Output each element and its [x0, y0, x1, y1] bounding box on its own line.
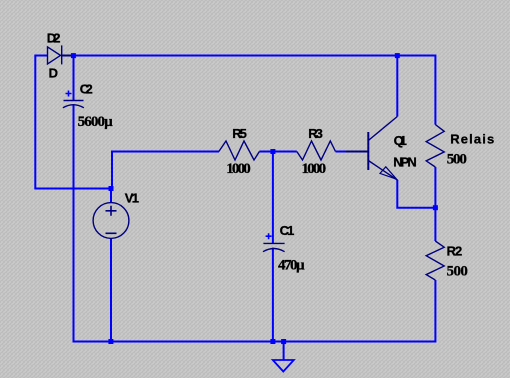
svg-text:D2: D2	[47, 31, 61, 46]
svg-text:R3: R3	[308, 126, 323, 141]
svg-text:C2: C2	[80, 82, 93, 97]
svg-text:1000: 1000	[302, 161, 327, 177]
svg-text:NPN: NPN	[393, 154, 417, 169]
svg-text:500: 500	[447, 152, 467, 168]
svg-text:500: 500	[447, 264, 468, 280]
svg-text:R2: R2	[447, 243, 463, 258]
svg-text:470µ: 470µ	[278, 257, 305, 273]
svg-text:Relais: Relais	[450, 132, 494, 147]
svg-text:1000: 1000	[226, 161, 251, 177]
svg-text:5600µ: 5600µ	[78, 114, 114, 130]
svg-text:V1: V1	[125, 191, 139, 206]
svg-text:D: D	[49, 66, 58, 81]
svg-text:Q1: Q1	[394, 133, 407, 148]
svg-text:R5: R5	[232, 126, 247, 141]
svg-text:C1: C1	[280, 223, 295, 238]
